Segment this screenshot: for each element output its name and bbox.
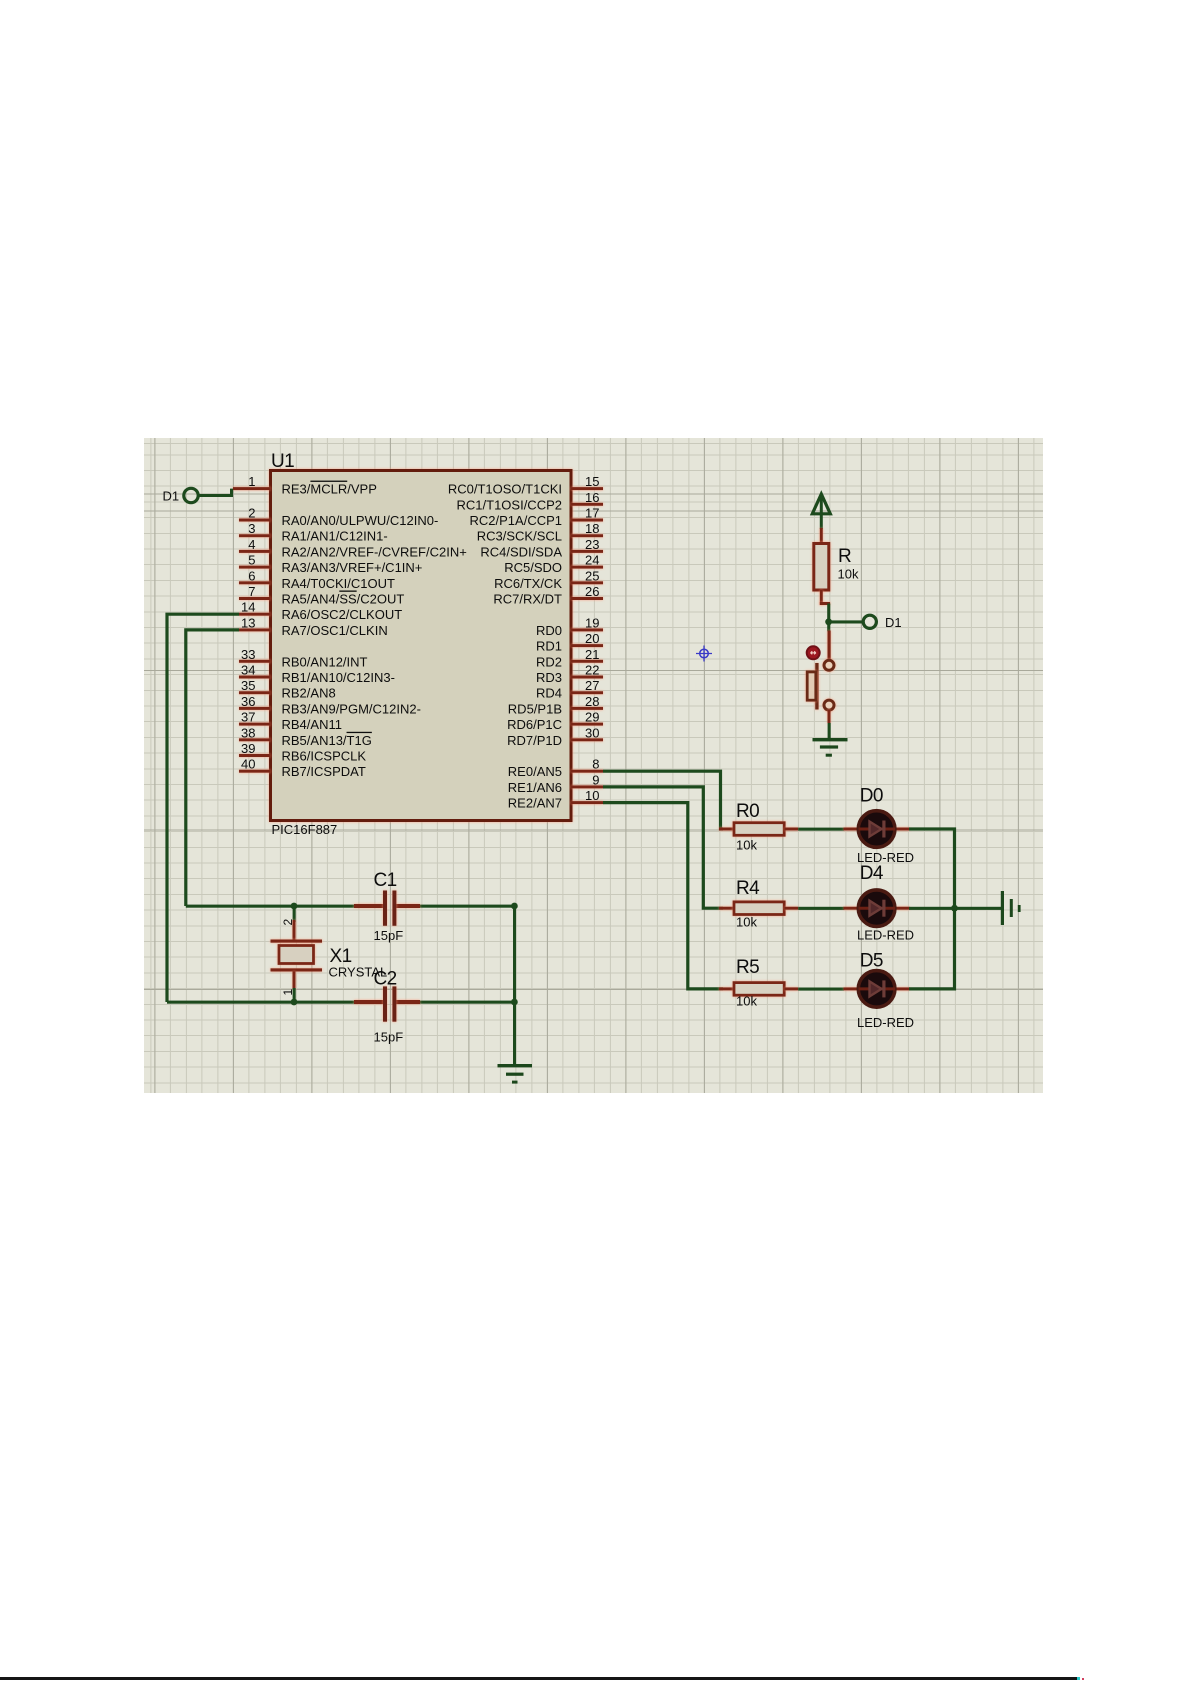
svg-text:RD5/P1B: RD5/P1B (508, 701, 562, 716)
junction C1 row / right vertical (511, 903, 518, 910)
resistor R 10k (pull-up) (814, 528, 859, 605)
svg-text:34: 34 (241, 663, 255, 678)
U1 pin 24 RC5/SDO (504, 553, 603, 576)
svg-text:RA2/AN2/VREF-/CVREF/C2IN+: RA2/AN2/VREF-/CVREF/C2IN+ (282, 544, 467, 559)
crystal pin number 1 (281, 989, 295, 996)
svg-text:30: 30 (585, 725, 599, 740)
svg-text:RC6/TX/CK: RC6/TX/CK (494, 576, 562, 591)
svg-text:22: 22 (585, 663, 599, 678)
U1 pin 26 RC7/RX/DT (493, 584, 603, 607)
svg-text:10k: 10k (736, 994, 757, 1009)
svg-text:RD1: RD1 (536, 639, 562, 654)
U1 pin 7 RA5/AN4/SS/C2OUT (239, 584, 404, 607)
U1 pin 19 RD0 (536, 615, 603, 638)
push button contacts and body (807, 631, 834, 724)
wire R4 to D4 (798, 907, 844, 910)
terminal D1 (right) (863, 615, 901, 630)
svg-text:D0: D0 (860, 786, 883, 807)
wire D1 terminal to U1 pin 1 (198, 489, 232, 496)
svg-text:27: 27 (585, 678, 599, 693)
svg-text:39: 39 (241, 741, 255, 756)
svg-text:8: 8 (592, 757, 599, 772)
svg-text:PIC16F887: PIC16F887 (272, 822, 338, 837)
svg-text:1: 1 (248, 474, 255, 489)
U1 pin 10 RE2/AN7 (508, 788, 603, 811)
origin marker (blue) (696, 646, 712, 662)
LED D4 LED-RED (844, 863, 915, 943)
resistor R4 10k (719, 878, 798, 930)
svg-text:U1: U1 (271, 451, 294, 472)
svg-text:D1: D1 (163, 489, 180, 504)
svg-text:RD7/P1D: RD7/P1D (507, 733, 562, 748)
U1 pin 14 RA6/OSC2/CLKOUT (239, 600, 402, 623)
junction node R / D1 / button (825, 618, 832, 625)
capacitor C2 15pF (354, 969, 420, 1045)
crystal X1 (271, 906, 388, 1002)
U1 pin 40 RB7/ICSPDAT (239, 757, 366, 780)
U1 pin 33 RB0/AN12/INT (239, 647, 368, 670)
svg-text:RB5/AN13/T1G: RB5/AN13/T1G (282, 733, 372, 748)
svg-text:3: 3 (248, 521, 255, 536)
svg-text:RA6/OSC2/CLKOUT: RA6/OSC2/CLKOUT (282, 607, 403, 622)
svg-text:9: 9 (592, 772, 599, 787)
svg-text:15: 15 (585, 474, 599, 489)
wire junction to button (827, 622, 830, 632)
U1 pin 28 RD5/P1B (508, 694, 603, 717)
svg-text:RD2: RD2 (536, 654, 562, 669)
junction C1 row / crystal top (291, 903, 298, 910)
svg-text:RA0/AN0/ULPWU/C12IN0-: RA0/AN0/ULPWU/C12IN0- (282, 513, 439, 528)
svg-text:CRYSTAL: CRYSTAL (329, 965, 388, 980)
svg-text:RC3/SCK/SCL: RC3/SCK/SCL (477, 529, 562, 544)
svg-text:R: R (838, 546, 851, 567)
schematic sheet background grid (144, 438, 1043, 1093)
IC U1 PIC16F887 body (271, 451, 572, 837)
svg-text:25: 25 (585, 568, 599, 583)
svg-text:20: 20 (585, 631, 599, 646)
svg-text:29: 29 (585, 710, 599, 725)
svg-text:R0: R0 (736, 801, 759, 822)
U1 pin 9 RE1/AN6 (508, 772, 603, 795)
ground (crystal net) (498, 1064, 533, 1084)
svg-text:D5: D5 (860, 951, 883, 972)
wire U1 pin14 (RA6/OSC2) to C2 row (167, 614, 239, 1002)
svg-text:18: 18 (585, 521, 599, 536)
U1 pin 34 RB1/AN10/C12IN3- (239, 663, 395, 686)
svg-text:RE0/AN5: RE0/AN5 (508, 764, 562, 779)
svg-text:24: 24 (585, 553, 599, 568)
svg-text:RE2/AN7: RE2/AN7 (508, 796, 562, 811)
U1 pin 39 RB6/ICSPCLK (239, 741, 366, 764)
svg-text:RA7/OSC1/CLKIN: RA7/OSC1/CLKIN (282, 623, 388, 638)
U1 pin 35 RB2/AN8 (239, 678, 336, 701)
wire U1 pin8 RE0 to R0 (603, 771, 723, 829)
svg-text:C1: C1 (374, 870, 397, 891)
svg-text:RB2/AN8: RB2/AN8 (282, 686, 336, 701)
svg-text:2: 2 (248, 506, 255, 521)
svg-text:10k: 10k (736, 915, 757, 930)
svg-text:15pF: 15pF (374, 928, 404, 943)
svg-text:1: 1 (281, 989, 295, 996)
svg-text:RC7/RX/DT: RC7/RX/DT (493, 592, 562, 607)
svg-text:LED-RED: LED-RED (857, 928, 914, 943)
svg-text:2: 2 (281, 919, 295, 926)
svg-text:RB6/ICSPCLK: RB6/ICSPCLK (282, 749, 367, 764)
svg-text:RB1/AN10/C12IN3-: RB1/AN10/C12IN3- (282, 670, 395, 685)
svg-text:RA5/AN4/SS/C2OUT: RA5/AN4/SS/C2OUT (282, 592, 405, 607)
U1 pin 18 RC3/SCK/SCL (477, 521, 603, 544)
wire C1 row (OSC1 net) (186, 905, 516, 908)
U1 pin 37 RB4/AN11 (239, 710, 342, 733)
svg-text:40: 40 (241, 757, 255, 772)
svg-text:D1: D1 (885, 615, 902, 630)
svg-text:RE3/MCLR/VPP: RE3/MCLR/VPP (282, 482, 377, 497)
U1 pin 27 RD4 (536, 678, 603, 701)
svg-text:10k: 10k (736, 838, 757, 853)
resistor R5 10k (719, 957, 798, 1009)
U1 pin 20 RD1 (536, 631, 603, 654)
svg-text:RB3/AN9/PGM/C12IN2-: RB3/AN9/PGM/C12IN2- (282, 701, 421, 716)
U1 pin 4 RA2/AN2/VREF-/CVREF/C2IN+ (239, 537, 467, 560)
LED D0 LED-RED (844, 786, 915, 866)
U1 pin 1 RE3/MCLR/VPP (233, 474, 377, 497)
wire LED bus vertical (909, 829, 955, 989)
svg-text:LED-RED: LED-RED (857, 1015, 914, 1030)
svg-text:14: 14 (241, 600, 255, 615)
U1 pin 30 RD7/P1D (507, 725, 603, 748)
U1 pin 3 RA1/AN1/C12IN1- (239, 521, 388, 544)
svg-text:RC5/SDO: RC5/SDO (504, 560, 562, 575)
svg-text:RC4/SDI/SDA: RC4/SDI/SDA (480, 544, 562, 559)
svg-text:D4: D4 (860, 863, 884, 884)
wire U1 pin13 (RA7/OSC1) to C1 row (186, 630, 239, 906)
svg-text:16: 16 (585, 490, 599, 505)
wire R5 to D5 (798, 988, 844, 991)
junction C2 row / crystal bottom (291, 999, 298, 1006)
svg-text:RB4/AN11: RB4/AN11 (282, 717, 342, 732)
U1 pin 22 RD3 (536, 663, 603, 686)
U1 pin 21 RD2 (536, 647, 603, 670)
svg-text:RA3/AN3/VREF+/C1IN+: RA3/AN3/VREF+/C1IN+ (282, 560, 423, 575)
U1 pin 5 RA3/AN3/VREF+/C1IN+ (239, 553, 422, 576)
terminal D1 (left input) (163, 488, 199, 503)
resistor R0 10k (719, 801, 798, 853)
U1 pin 2 RA0/AN0/ULPWU/C12IN0- (239, 506, 438, 529)
svg-text:10: 10 (585, 788, 599, 803)
svg-text:RD0: RD0 (536, 623, 562, 638)
svg-text:RD3: RD3 (536, 670, 562, 685)
svg-text:38: 38 (241, 725, 255, 740)
U1 pin 8 RE0/AN5 (508, 757, 603, 780)
svg-text:RA1/AN1/C12IN1-: RA1/AN1/C12IN1- (282, 529, 388, 544)
svg-text:26: 26 (585, 584, 599, 599)
U1 pin 17 RC2/P1A/CCP1 (470, 506, 603, 529)
svg-text:28: 28 (585, 694, 599, 709)
push button actuator (807, 646, 820, 659)
svg-text:RC2/P1A/CCP1: RC2/P1A/CCP1 (470, 513, 562, 528)
svg-text:37: 37 (241, 710, 255, 725)
wire R to junction (827, 604, 830, 622)
svg-text:RB7/ICSPDAT: RB7/ICSPDAT (282, 764, 366, 779)
svg-text:35: 35 (241, 678, 255, 693)
wire C2 row (OSC2 net) (167, 1001, 516, 1004)
U1 pin 23 RC4/SDI/SDA (480, 537, 603, 560)
junction bus / D4 row (951, 905, 958, 912)
svg-text:RB0/AN12/INT: RB0/AN12/INT (282, 654, 368, 669)
svg-text:4: 4 (248, 537, 255, 552)
U1 pin 38 RB5/AN13/T1G (239, 725, 372, 748)
wire U1 pin10 RE2 to R5 (603, 803, 723, 989)
svg-text:7: 7 (248, 584, 255, 599)
svg-text:36: 36 (241, 694, 255, 709)
wire U1 pin9 RE1 to R4 (603, 787, 723, 908)
U1 pin 16 RC1/T1OSI/CCP2 (457, 490, 603, 513)
ground (right, rotated) (1001, 891, 1021, 925)
svg-text:17: 17 (585, 506, 599, 521)
svg-text:RD4: RD4 (536, 686, 562, 701)
svg-text:RC0/T1OSO/T1CKI: RC0/T1OSO/T1CKI (448, 482, 562, 497)
U1 pin 15 RC0/T1OSO/T1CKI (448, 474, 603, 497)
svg-text:33: 33 (241, 647, 255, 662)
svg-text:RD6/P1C: RD6/P1C (507, 717, 562, 732)
svg-text:15pF: 15pF (374, 1030, 404, 1045)
svg-text:23: 23 (585, 537, 599, 552)
U1 pin 25 RC6/TX/CK (494, 568, 603, 591)
U1 pin 6 RA4/T0CKI/C1OUT (239, 568, 395, 591)
wire R0 to D0 (798, 828, 844, 831)
U1 pin 36 RB3/AN9/PGM/C12IN2- (239, 694, 421, 717)
svg-text:6: 6 (248, 568, 255, 583)
crystal pin number 2 (281, 919, 295, 926)
power VCC arrow (812, 494, 830, 529)
svg-text:13: 13 (241, 615, 255, 630)
LED D5 LED-RED (844, 951, 915, 1031)
wire button to ground (828, 723, 831, 739)
svg-text:RE1/AN6: RE1/AN6 (508, 780, 562, 795)
U1 pin 13 RA7/OSC1/CLKIN (239, 615, 388, 638)
page footer rule (0, 1677, 1078, 1680)
svg-text:R5: R5 (736, 957, 759, 978)
wire D4 row to right ground (909, 907, 1002, 910)
svg-text:5: 5 (248, 553, 255, 568)
ground (below button) (813, 738, 848, 757)
junction C2 row / right vertical (511, 999, 518, 1006)
svg-text:21: 21 (585, 647, 599, 662)
capacitor C1 15pF (354, 870, 420, 943)
svg-text:19: 19 (585, 615, 599, 630)
U1 pin 29 RD6/P1C (507, 710, 603, 733)
svg-text:R4: R4 (736, 878, 760, 899)
svg-text:RA4/T0CKI/C1OUT: RA4/T0CKI/C1OUT (282, 576, 395, 591)
svg-text:10k: 10k (838, 567, 859, 582)
wire right vertical to ground (513, 906, 516, 1065)
svg-text:RC1/T1OSI/CCP2: RC1/T1OSI/CCP2 (457, 497, 562, 512)
wire junction to D1 terminal (829, 620, 864, 623)
